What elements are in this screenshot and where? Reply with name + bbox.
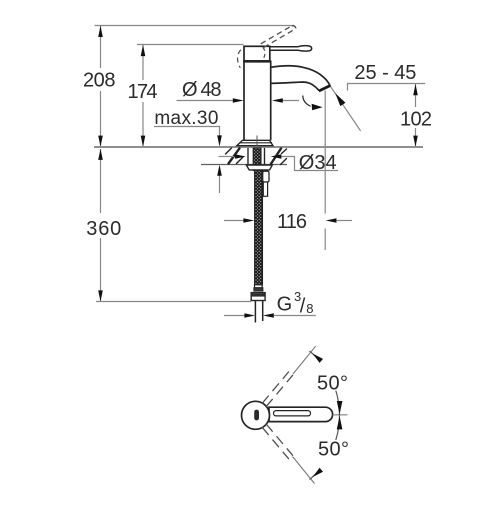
arc lower with arrows bbox=[336, 415, 340, 440]
dim 102 vertical line bbox=[415, 84, 417, 147]
dim 360 arrowheads bbox=[98, 149, 103, 302]
svg-text:G: G bbox=[277, 294, 293, 316]
D34 left arrow bbox=[219, 156, 235, 158]
connection tube G3/8 bbox=[255, 301, 262, 323]
G3/8 underline / leader bbox=[274, 315, 316, 317]
deck line bbox=[94, 146, 423, 148]
svg-text:116: 116 bbox=[277, 211, 307, 233]
max.30 lower arrow bbox=[219, 168, 221, 193]
dim 208 arrowheads bbox=[98, 26, 103, 147]
D34 right arrow + leader bbox=[271, 154, 282, 159]
50 deg line upper bbox=[293, 346, 316, 374]
lever slot bbox=[274, 411, 311, 416]
dim 174 vertical line bbox=[142, 45, 144, 147]
svg-text:360: 360 bbox=[86, 218, 121, 240]
svg-text:Ø 48: Ø 48 bbox=[182, 79, 222, 101]
hose collar bbox=[255, 285, 263, 288]
arrow D48 right bbox=[279, 100, 299, 102]
dim 116 bbox=[224, 220, 246, 222]
faucet body bbox=[244, 61, 271, 141]
svg-text:/: / bbox=[300, 296, 306, 318]
svg-text:max.30: max.30 bbox=[154, 108, 218, 129]
hose braid column bbox=[253, 148, 261, 171]
deck hatching right bbox=[271, 149, 287, 165]
50 deg line lower bbox=[293, 457, 315, 484]
hex nut bbox=[251, 293, 265, 301]
body circle (top view) bbox=[242, 401, 270, 429]
svg-text:208: 208 bbox=[83, 70, 116, 92]
svg-text:102: 102 bbox=[400, 108, 432, 130]
dim 208 vertical line bbox=[100, 26, 102, 147]
swivel arc arrow under spout bbox=[303, 96, 311, 107]
svg-text:Ø34: Ø34 bbox=[299, 152, 337, 174]
lever (top view) bbox=[269, 407, 333, 421]
cartridge box (handle base) bbox=[244, 46, 270, 61]
dim 102 arrowheads bbox=[413, 84, 418, 147]
25-45 underline + drop bbox=[348, 84, 426, 91]
max.30 upper arrowhead bbox=[217, 135, 222, 146]
centerline right of lever bbox=[333, 414, 348, 416]
spout bbox=[271, 66, 331, 86]
hose connector right bbox=[263, 171, 269, 182]
cartridge mark bbox=[254, 410, 259, 421]
aerator cut face bbox=[319, 86, 330, 92]
max.30 underline + drop line bbox=[154, 127, 220, 143]
svg-text:174: 174 bbox=[128, 81, 158, 103]
svg-text:50°: 50° bbox=[318, 439, 349, 461]
dashed swing arc left of body bbox=[238, 50, 241, 68]
dashed lever lower position bbox=[262, 424, 293, 459]
dim line 174 top bbox=[137, 44, 244, 46]
svg-text:8: 8 bbox=[306, 301, 313, 316]
deck hatching left bbox=[226, 148, 244, 164]
deck bottom line bbox=[201, 164, 287, 166]
leader D48 left with arrow bbox=[177, 100, 237, 102]
G3/8 dimension arrows bbox=[224, 315, 247, 317]
leader to aerator bbox=[331, 87, 361, 131]
360 bottom extension line bbox=[96, 301, 251, 303]
dashed lever upper position bbox=[262, 372, 293, 407]
svg-text:25 - 45: 25 - 45 bbox=[354, 62, 416, 84]
dashed pivot arc inside box bbox=[263, 47, 265, 58]
dim 360 vertical line bbox=[100, 149, 102, 302]
shank outer lines bbox=[248, 148, 265, 164]
lever arm (side view) bbox=[270, 46, 312, 51]
flange at body base bbox=[237, 140, 273, 145]
dim 174 arrowheads bbox=[141, 45, 146, 147]
mounting nut below deck bbox=[246, 165, 272, 170]
svg-text:50°: 50° bbox=[317, 372, 348, 394]
spout tip vertical line bbox=[324, 91, 326, 251]
arc upper with arrows bbox=[336, 391, 340, 416]
dim line 208 top bbox=[95, 25, 295, 27]
raised lever (dashed ghost) bbox=[261, 26, 296, 48]
centerline bbox=[256, 136, 258, 147]
